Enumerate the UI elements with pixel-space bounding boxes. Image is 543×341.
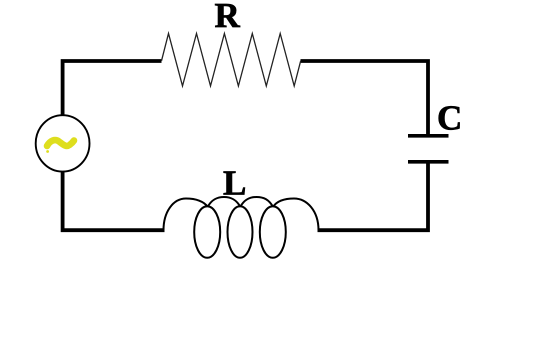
- svg-text:C: C: [437, 98, 462, 137]
- resistor R: [162, 34, 301, 87]
- AC source tilde: [46, 140, 74, 153]
- wire top-left horizontal with left corner: [63, 61, 162, 116]
- wire top-right horizontal down to capacitor: [301, 61, 429, 135]
- capacitor C: [408, 136, 449, 162]
- svg-text:R: R: [215, 0, 241, 35]
- AC source U1 circle: [36, 115, 90, 171]
- svg-text:L: L: [223, 164, 246, 203]
- wire left-bottom vertical and bottom-left horizontal: [63, 171, 165, 231]
- wire capacitor to bottom-right horizontal: [318, 163, 429, 230]
- inductor L: [164, 197, 319, 258]
